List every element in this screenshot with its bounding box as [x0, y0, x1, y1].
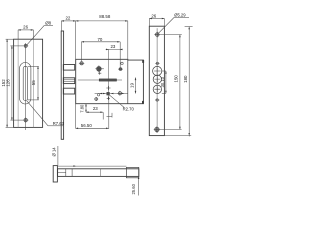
svg-text:56.50: 56.50: [81, 123, 93, 128]
svg-text:23: 23: [93, 106, 98, 111]
big circle 1: [153, 66, 162, 75]
svg-text:Ø 14: Ø 14: [52, 147, 57, 157]
bottom hole left plate: [24, 118, 28, 122]
svg-text:R2.70: R2.70: [123, 106, 135, 111]
svg-text:26: 26: [23, 24, 28, 29]
bend line left: [17, 39, 19, 127]
svg-text:70: 70: [97, 37, 102, 42]
partition line right section: [127, 60, 129, 104]
slot emboss (outer stadium) in left plate: [20, 63, 31, 104]
bend line right: [32, 39, 34, 127]
dim 180: [164, 27, 192, 137]
body corner post bottom right: [142, 101, 144, 104]
svg-text:88.58: 88.58: [99, 14, 111, 19]
svg-text:55: 55: [31, 80, 36, 85]
dim 152: [6, 39, 14, 127]
svg-text:R7.63: R7.63: [53, 121, 65, 126]
small circle top-right: [121, 62, 123, 64]
dim 126: [10, 46, 23, 120]
svg-text:25.60: 25.60: [131, 183, 136, 194]
spindle hole (square follower): [107, 92, 110, 95]
cross below spindle: [107, 97, 110, 100]
left plate outline: [14, 39, 43, 127]
cross above spindle: [106, 86, 110, 90]
tiny hole bottom-left of cluster: [94, 97, 98, 101]
dim 88.58: [76, 21, 128, 60]
big circle 3: [153, 85, 161, 93]
big circle 2: [153, 75, 161, 83]
bottom view faceplate slab: [53, 166, 57, 182]
dim 70: [81, 42, 120, 62]
svg-text:150: 150: [174, 75, 179, 83]
svg-text:180: 180: [183, 75, 188, 83]
dim 30.10: [162, 71, 166, 93]
dim 22: [61, 21, 75, 59]
tab2 mid line: [63, 79, 74, 81]
right plate outline: [149, 26, 164, 135]
dim 23 bottom: [86, 94, 112, 129]
hole top-right body: [118, 68, 123, 71]
right top hole: [154, 32, 160, 38]
right bottom hole: [154, 126, 160, 132]
leader Ø8: [27, 25, 45, 45]
left plate centerline: [25, 43, 27, 130]
bolt tab 3: [63, 88, 74, 94]
leader R7.63: [27, 101, 48, 126]
svg-text:Ø5.29: Ø5.29: [174, 13, 186, 18]
dim 55 slot: [28, 66, 39, 100]
cluster centerline: [108, 49, 110, 93]
cluster dim line: [95, 93, 128, 95]
svg-text:7.80: 7.80: [80, 104, 85, 113]
bottom view right plate section: [126, 167, 138, 177]
right small hole lower: [155, 99, 159, 101]
svg-text:126: 126: [6, 79, 11, 87]
bottom view ticks: [65, 169, 67, 177]
bolt tab 2 (deadbolt): [63, 78, 74, 84]
leader 25.60: [58, 165, 127, 167]
deadbolt tail thin line inside body: [78, 79, 122, 81]
svg-text:22: 22: [65, 15, 70, 20]
svg-text:19: 19: [130, 83, 135, 88]
faceplate strip side view: [61, 31, 63, 139]
leader R2.70: [109, 94, 124, 107]
dim 26 left: [18, 30, 33, 39]
dim 7.80: [85, 104, 87, 113]
dim 23 top: [106, 42, 123, 68]
big hole with cross: [95, 65, 104, 72]
dim Ø14: [57, 146, 59, 166]
hole top-left body: [79, 62, 84, 65]
bolt tab 1: [63, 65, 74, 71]
leader Ø5.29: [158, 18, 174, 34]
deadbolt dark bar: [99, 79, 116, 81]
dim 19: [135, 78, 137, 94]
body corner post top right: [142, 60, 144, 63]
dim 150: [160, 35, 182, 130]
cylinder hole right of spindle: [118, 91, 123, 96]
lock body outline: [76, 59, 144, 103]
right small hole upper: [155, 62, 159, 64]
small cross above bar: [98, 72, 101, 75]
bottom view case bar: [58, 169, 139, 177]
slot (inner stadium) in left plate: [23, 66, 27, 100]
svg-text:30.10: 30.10: [160, 76, 165, 87]
svg-text:23: 23: [110, 44, 115, 49]
svg-text:26: 26: [151, 13, 156, 18]
top hole left plate: [24, 44, 27, 47]
dim 26 right: [149, 19, 164, 27]
right plate centerline: [156, 28, 158, 133]
svg-text:Ø8: Ø8: [45, 20, 51, 25]
small circle left of spindle: [97, 94, 99, 96]
dim 56.50: [76, 104, 109, 128]
